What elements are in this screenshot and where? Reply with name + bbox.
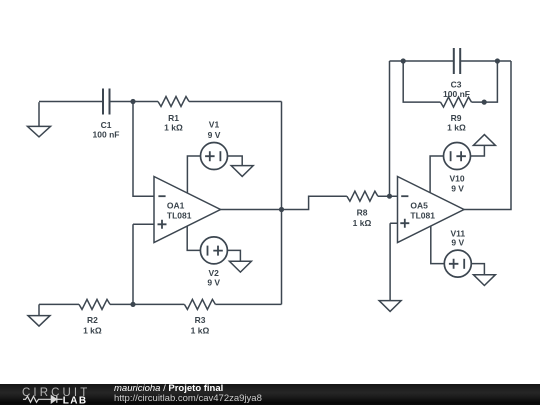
resistor R3	[184, 299, 215, 309]
footer credit	[114, 383, 223, 394]
wire	[39, 101, 103, 103]
ground	[229, 261, 251, 272]
wire	[110, 101, 159, 103]
resistor R9	[441, 97, 472, 107]
node C	[279, 207, 284, 212]
capacitor C1	[103, 89, 110, 115]
svg-text:V1: V1	[209, 120, 220, 130]
wire	[472, 61, 498, 102]
svg-text:9 V: 9 V	[208, 130, 221, 140]
capacitor C3	[454, 48, 460, 74]
footer bar	[0, 384, 540, 405]
svg-text:C3: C3	[451, 79, 462, 89]
resistor R1	[158, 97, 189, 107]
svg-text:1 kΩ: 1 kΩ	[83, 325, 102, 335]
wire	[390, 60, 454, 62]
ground	[28, 102, 51, 137]
svg-text:V10: V10	[449, 174, 464, 184]
svg-text:1 kΩ: 1 kΩ	[447, 123, 466, 133]
wire	[221, 196, 347, 209]
node F	[482, 100, 487, 105]
svg-text:1 kΩ: 1 kΩ	[353, 218, 372, 228]
ground	[379, 301, 401, 312]
wire	[215, 303, 281, 305]
svg-text:R3: R3	[195, 315, 206, 325]
svg-text:R1: R1	[168, 113, 179, 123]
svg-text:9 V: 9 V	[451, 183, 464, 193]
wire	[133, 102, 154, 197]
svg-text:TL081: TL081	[167, 211, 192, 221]
resistor R2	[79, 299, 110, 309]
wire	[281, 102, 283, 305]
voltage source V10	[430, 143, 484, 193]
svg-text:100 nF: 100 nF	[443, 89, 470, 99]
wire	[403, 61, 440, 102]
node A	[130, 99, 135, 104]
ground	[473, 275, 495, 286]
ground	[28, 304, 50, 326]
wire	[389, 61, 391, 196]
node B	[130, 302, 135, 307]
svg-text:9 V: 9 V	[451, 238, 464, 248]
voltage source V2	[187, 226, 240, 264]
svg-text:9 V: 9 V	[207, 278, 220, 288]
svg-text:C1: C1	[101, 120, 112, 130]
power flag	[473, 135, 495, 146]
circuitlab logo	[20, 384, 95, 405]
wire	[378, 195, 398, 197]
node D	[387, 194, 392, 199]
svg-text:1 kΩ: 1 kΩ	[191, 325, 210, 335]
svg-text:TL081: TL081	[410, 211, 435, 221]
wire	[460, 60, 511, 62]
voltage source V11	[431, 226, 485, 277]
svg-text:100 nF: 100 nF	[93, 130, 120, 140]
resistor R8	[347, 191, 378, 201]
svg-text:R2: R2	[87, 315, 98, 325]
svg-text:OA5: OA5	[410, 201, 428, 211]
svg-text:R9: R9	[451, 113, 462, 123]
wire	[110, 303, 184, 305]
voltage source V1	[187, 143, 242, 194]
wire	[39, 303, 79, 305]
wire	[390, 223, 397, 300]
ground	[231, 166, 253, 177]
op-amp U5	[398, 177, 465, 243]
svg-text:R8: R8	[357, 208, 368, 218]
op-amp U1	[154, 177, 221, 243]
svg-text:V2: V2	[208, 268, 219, 278]
wire	[189, 101, 282, 103]
svg-text:LAB: LAB	[63, 396, 88, 405]
node E	[401, 58, 406, 63]
svg-text:1 kΩ: 1 kΩ	[164, 123, 183, 133]
node G	[495, 58, 500, 63]
svg-text:OA1: OA1	[167, 201, 185, 211]
wire	[464, 61, 511, 210]
wire	[133, 224, 154, 304]
